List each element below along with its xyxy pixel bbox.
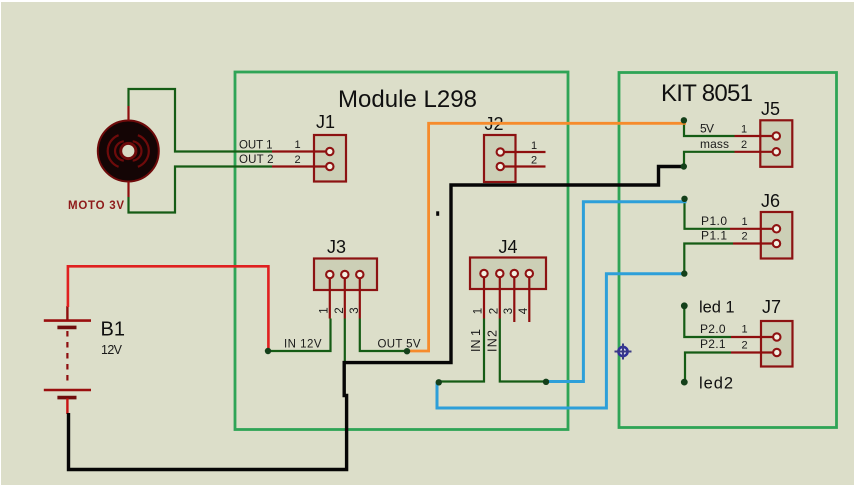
svg-text:4: 4 xyxy=(518,307,530,314)
svg-text:P1.1: P1.1 xyxy=(701,229,727,243)
junction node P1.0 xyxy=(681,196,687,202)
svg-text:1: 1 xyxy=(742,324,748,336)
svg-text:3: 3 xyxy=(349,307,361,313)
junction node 5V xyxy=(681,117,687,123)
wire motor bottom to J1 pin2 xyxy=(129,167,273,213)
wire P2.0 green segment xyxy=(684,306,731,337)
svg-text:OUT 2: OUT 2 xyxy=(239,154,274,166)
junction node IN 12V xyxy=(265,348,271,354)
wire blue IN2 to P1.0 xyxy=(546,202,687,382)
svg-text:IN 12V: IN 12V xyxy=(284,339,322,351)
module box Module L298 xyxy=(235,72,568,430)
svg-text:P2.0: P2.0 xyxy=(700,322,726,336)
svg-text:OUT 1: OUT 1 xyxy=(239,140,273,152)
origin marker crosshair xyxy=(615,344,632,360)
svg-text:P2.1: P2.1 xyxy=(700,337,726,351)
connector J2 xyxy=(484,135,546,182)
wire P1.0 green segment xyxy=(685,199,731,229)
junction node OUT 5V xyxy=(404,348,410,354)
junction node mass xyxy=(681,163,687,169)
svg-text:led 1: led 1 xyxy=(699,299,735,317)
junction node P1.1 xyxy=(681,270,687,276)
svg-text:P1.0: P1.0 xyxy=(701,214,727,228)
wire OUT 5V green segment xyxy=(360,319,407,352)
connector J6 xyxy=(730,212,792,259)
svg-text:2: 2 xyxy=(742,340,748,352)
svg-text:led2: led2 xyxy=(699,375,733,393)
svg-text:2: 2 xyxy=(742,231,748,243)
svg-text:2: 2 xyxy=(531,155,537,167)
svg-text:2: 2 xyxy=(295,154,301,166)
svg-text:mass: mass xyxy=(700,137,729,151)
svg-text:IN 1: IN 1 xyxy=(469,329,483,352)
svg-text:J5: J5 xyxy=(761,99,780,119)
svg-text:J1: J1 xyxy=(316,112,335,132)
motor pin stub top xyxy=(127,106,129,121)
node led 1 xyxy=(681,302,688,309)
wire orange OUT 5V to KIT xyxy=(407,123,686,351)
module box KIT 8051 xyxy=(619,73,837,428)
connector J1 xyxy=(272,135,346,182)
svg-text:J6: J6 xyxy=(761,191,780,211)
svg-text:5V: 5V xyxy=(700,121,714,135)
svg-text:OUT 5V: OUT 5V xyxy=(378,339,421,351)
svg-text:1: 1 xyxy=(742,216,748,228)
wire mass green segment xyxy=(684,152,735,167)
junction node IN1 xyxy=(436,379,442,385)
svg-text:1: 1 xyxy=(531,140,537,152)
svg-text:J3: J3 xyxy=(327,237,346,257)
svg-text:KIT 8051: KIT 8051 xyxy=(661,80,753,107)
connector J4 xyxy=(470,258,546,323)
junction node IN2 xyxy=(543,379,549,385)
wire P2.1 green segment xyxy=(685,353,731,383)
svg-text:J7: J7 xyxy=(762,297,781,317)
connector J7 xyxy=(731,321,793,367)
wire 5V green segment xyxy=(684,120,735,136)
wire blue IN1 to P1.1 xyxy=(437,274,684,408)
svg-text:Module L298: Module L298 xyxy=(338,86,477,113)
wire P1.1 green segment xyxy=(684,244,733,274)
svg-text:2: 2 xyxy=(488,308,500,314)
svg-text:12V: 12V xyxy=(101,343,123,357)
svg-text:1: 1 xyxy=(741,124,747,136)
svg-text:MOTO 3V: MOTO 3V xyxy=(68,200,124,212)
svg-text:B1: B1 xyxy=(101,319,125,341)
svg-text:2: 2 xyxy=(741,139,747,151)
wire battery positive red xyxy=(68,266,269,351)
wire IN 12V green segment xyxy=(268,319,331,352)
svg-text:2: 2 xyxy=(334,307,346,313)
svg-text:IN2: IN2 xyxy=(486,330,500,352)
battery B1 xyxy=(44,306,91,414)
motor pin stub bottom xyxy=(127,182,129,198)
svg-text:1: 1 xyxy=(295,139,301,151)
wire IN 2 green segment xyxy=(500,319,546,382)
svg-text:J4: J4 xyxy=(499,237,518,257)
wire J3 pin2 green segment xyxy=(344,319,346,363)
svg-text:3: 3 xyxy=(503,308,515,314)
wire motor top to J1 pin1 xyxy=(129,89,273,152)
svg-text:1: 1 xyxy=(319,307,331,313)
node led2 xyxy=(681,379,688,386)
connector J5 xyxy=(735,120,793,167)
wire battery negative black xyxy=(69,167,684,470)
stray black mark xyxy=(436,211,439,216)
motor MOTO 3V xyxy=(98,121,159,182)
wire IN 1 green segment xyxy=(439,319,484,382)
connector J3 xyxy=(314,259,377,319)
svg-text:1: 1 xyxy=(473,308,485,314)
